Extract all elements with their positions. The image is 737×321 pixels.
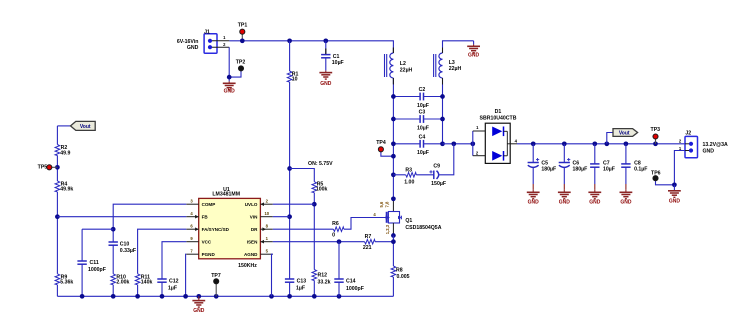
- svg-text:PGND: PGND: [202, 252, 216, 257]
- svg-text:1000pF: 1000pF: [88, 267, 106, 273]
- svg-text:10µF: 10µF: [417, 125, 429, 131]
- svg-text:J1: J1: [204, 29, 210, 35]
- svg-text:TP7: TP7: [211, 273, 221, 279]
- svg-text:C3: C3: [419, 110, 426, 116]
- svg-text:CSD18504Q5A: CSD18504Q5A: [405, 225, 441, 231]
- svg-text:150KHz: 150KHz: [238, 263, 257, 269]
- svg-text:1,2,3: 1,2,3: [385, 224, 390, 234]
- svg-text:TP6: TP6: [651, 171, 661, 177]
- svg-text:GND: GND: [468, 53, 480, 59]
- svg-text:13.2V@3A: 13.2V@3A: [703, 142, 728, 148]
- svg-text:10: 10: [264, 211, 269, 216]
- svg-text:TP1: TP1: [238, 22, 248, 28]
- svg-text:DR: DR: [251, 227, 258, 232]
- svg-text:FA/SYNC/SD: FA/SYNC/SD: [202, 227, 230, 232]
- svg-text:1000pF: 1000pF: [346, 286, 364, 292]
- svg-text:J2: J2: [685, 131, 691, 137]
- svg-text:10µF: 10µF: [417, 150, 429, 156]
- svg-text:10µF: 10µF: [417, 103, 429, 109]
- svg-text:C4: C4: [419, 134, 426, 140]
- svg-text:221: 221: [363, 245, 372, 251]
- svg-text:SBR10U40CTB: SBR10U40CTB: [480, 116, 517, 122]
- svg-text:VCC: VCC: [202, 239, 212, 244]
- svg-text:180µF: 180µF: [541, 166, 556, 172]
- svg-text:AGND: AGND: [244, 252, 258, 257]
- svg-text:10µF: 10µF: [332, 60, 344, 66]
- svg-text:ON: 5.75V: ON: 5.75V: [308, 161, 333, 167]
- svg-text:5.36k: 5.36k: [60, 280, 73, 286]
- svg-text:5,6: 5,6: [379, 201, 384, 207]
- svg-text:GND: GND: [559, 199, 571, 205]
- svg-text:R3: R3: [405, 168, 412, 174]
- svg-text:1.00: 1.00: [404, 180, 414, 186]
- svg-text:2.00k: 2.00k: [116, 280, 129, 286]
- svg-text:TP2: TP2: [236, 59, 246, 65]
- svg-text:D1: D1: [495, 109, 502, 115]
- svg-text:10: 10: [292, 77, 298, 83]
- svg-text:GND: GND: [320, 81, 332, 87]
- svg-text:7,8: 7,8: [384, 201, 389, 207]
- svg-text:C13: C13: [297, 279, 307, 285]
- svg-text:ISEN: ISEN: [247, 239, 258, 244]
- svg-text:L2: L2: [400, 61, 406, 67]
- svg-text:R6: R6: [332, 221, 339, 227]
- svg-text:GND: GND: [589, 199, 601, 205]
- svg-text:Vout: Vout: [619, 131, 630, 137]
- svg-text:100k: 100k: [316, 187, 328, 193]
- svg-text:C12: C12: [169, 279, 179, 285]
- svg-text:49.9k: 49.9k: [60, 187, 73, 193]
- svg-text:R12: R12: [318, 272, 328, 278]
- svg-text:140k: 140k: [141, 280, 153, 286]
- svg-text:10µF: 10µF: [603, 166, 615, 172]
- svg-text:Q1: Q1: [405, 218, 412, 224]
- svg-text:C14: C14: [346, 279, 356, 285]
- svg-text:22µH: 22µH: [400, 67, 413, 73]
- svg-text:180µF: 180µF: [573, 166, 588, 172]
- svg-text:33.2k: 33.2k: [318, 279, 331, 285]
- svg-text:GND: GND: [528, 199, 540, 205]
- svg-text:150µF: 150µF: [431, 181, 446, 187]
- svg-text:TP3: TP3: [651, 127, 661, 133]
- svg-text:0.33µF: 0.33µF: [120, 248, 136, 254]
- svg-text:GND: GND: [224, 89, 236, 95]
- svg-text:COMP: COMP: [202, 202, 216, 207]
- svg-text:0: 0: [332, 232, 335, 238]
- svg-text:GND: GND: [193, 308, 205, 314]
- svg-text:GND: GND: [620, 199, 632, 205]
- svg-text:1µF: 1µF: [168, 285, 177, 291]
- svg-text:22µH: 22µH: [449, 66, 462, 72]
- svg-text:UVLO: UVLO: [245, 202, 258, 207]
- svg-text:GND: GND: [669, 199, 681, 205]
- svg-text:C2: C2: [419, 87, 426, 93]
- svg-text:49.9: 49.9: [60, 151, 70, 157]
- svg-text:L3: L3: [449, 60, 455, 66]
- svg-text:TP5: TP5: [38, 164, 48, 170]
- svg-text:Vout: Vout: [80, 124, 91, 130]
- svg-text:C10: C10: [120, 242, 130, 248]
- svg-text:GND: GND: [703, 148, 715, 154]
- svg-text:GND: GND: [187, 45, 199, 51]
- svg-text:VIN: VIN: [250, 214, 258, 219]
- svg-text:C11: C11: [90, 260, 99, 266]
- svg-text:0.1µF: 0.1µF: [634, 166, 647, 172]
- svg-text:1µF: 1µF: [296, 285, 305, 291]
- svg-text:0.005: 0.005: [397, 274, 410, 280]
- svg-text:C9: C9: [433, 164, 440, 170]
- svg-text:R8: R8: [396, 267, 403, 273]
- svg-text:TP4: TP4: [376, 140, 386, 146]
- svg-text:R7: R7: [365, 234, 372, 240]
- svg-text:FB: FB: [202, 214, 209, 219]
- svg-text:LM3481MM: LM3481MM: [212, 192, 240, 198]
